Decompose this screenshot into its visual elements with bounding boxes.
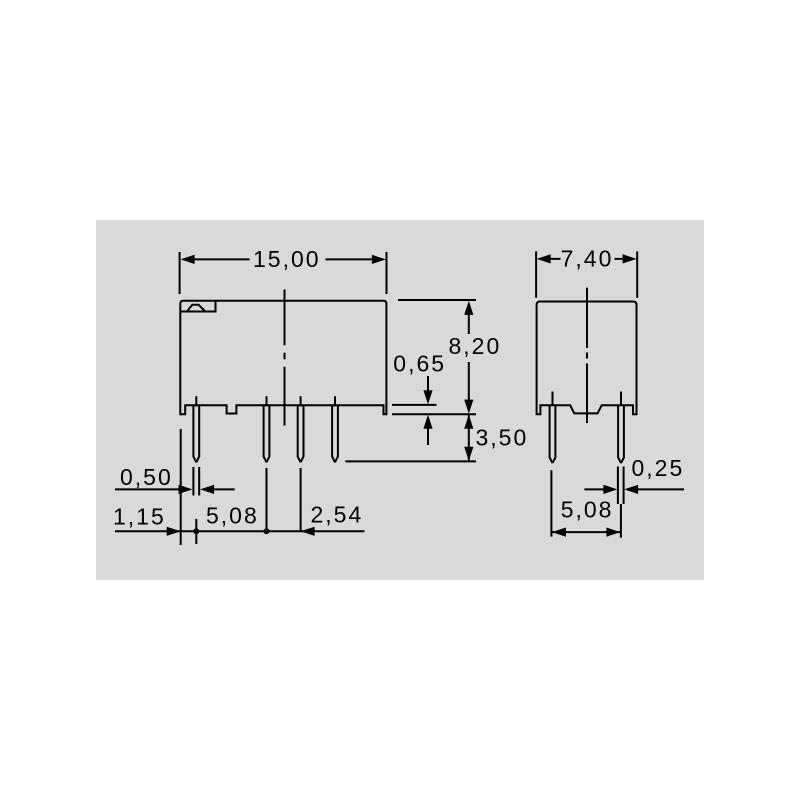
arrowhead 0,65 down [423,390,432,404]
pin 2 center extension line [266,468,268,531]
dim 0,65 extension lines [392,405,476,414]
chain dot pin1 [193,528,199,534]
arrowhead 1,15 right [167,527,181,536]
arrowhead 15,00 left [181,255,195,264]
arrowhead 0,50 left [200,485,214,494]
center line (side view) [284,290,286,426]
svg-text:0,25: 0,25 [632,455,685,481]
arrowhead 7,40 left [537,254,551,263]
pin 3 center extension line [300,468,302,531]
arrowhead 0,65 up [423,415,432,429]
svg-text:7,40: 7,40 [561,246,614,272]
pin center extension lines (end view, 5,08) [551,470,621,537]
grey drawing panel [96,220,704,580]
dim 7,40 extension lines [536,251,637,297]
arrowhead 3,50 down [464,447,473,461]
arrowhead 8,20 bottom [464,400,473,414]
svg-text:2,54: 2,54 [311,502,364,528]
orientation mark box (side view top-left) [180,301,215,312]
svg-text:8,20: 8,20 [449,333,502,359]
dim 15,00 line [194,258,373,260]
arrowhead 8,20 top [464,301,473,315]
dim 0,50 line [115,488,235,490]
arrowhead 7,40 right [623,254,637,263]
dim 15,00 extension lines [180,252,387,294]
pin 1 (side view) [193,396,199,462]
arrowhead 5,08 end-view right [606,528,620,537]
svg-text:0,65: 0,65 [393,351,446,377]
dim 0,25 line [584,488,684,490]
arrowhead 0,25 right [603,485,617,494]
pin 1 edge extension lines [193,467,199,496]
svg-text:1,15: 1,15 [113,503,166,529]
dim 3,50 bottom extension line [345,460,476,462]
pin 1 center extension line [195,519,197,544]
arrowhead 15,00 right [372,255,386,264]
svg-text:5,08: 5,08 [561,497,614,523]
body left edge extension line [180,429,182,545]
svg-text:5,08: 5,08 [206,502,259,528]
chain dot pin2 [264,528,270,534]
dim 3,50 line [468,414,470,461]
svg-text:15,00: 15,00 [253,246,321,272]
dim 0,65 arrow stems [427,376,429,445]
chain dimension line 1,15 / 5,08 / 2,54 [115,530,364,532]
orientation bump arc [187,305,206,312]
center line (end view) [586,288,588,423]
pin 2 (side view) [264,396,270,462]
svg-text:3,50: 3,50 [476,425,529,451]
arrowhead 2,54 left [301,527,315,536]
pin 3 (side view) [298,396,304,462]
relay body outline (side view) [180,301,386,415]
arrowhead 3,50 up [464,415,473,429]
arrowhead 0,50 right [179,485,193,494]
arrowhead 5,08 end-view left [552,528,566,537]
svg-text:0,50: 0,50 [120,464,173,490]
pin 4 (side view) [332,396,338,462]
pin left (end view) [550,392,556,464]
dim 5,08 line (end view) [551,531,621,533]
dim 8,20 top extension line [398,299,476,301]
pin edge extension lines (end view, 0,25) [618,467,624,505]
arrowhead 0,25 left [624,485,638,494]
dim 7,40 line [550,258,623,260]
pin right (end view) [618,392,624,464]
dim 8,20 line [468,315,470,401]
relay body outline (end view) [537,302,637,415]
